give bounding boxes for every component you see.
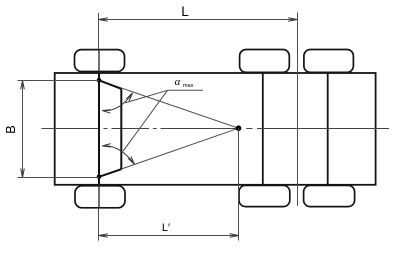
rear bottom wheel 1	[239, 185, 290, 206]
B bottom extension line	[18, 176, 100, 178]
front axle lower extension (thin)	[98, 208, 100, 241]
leader to bottom arc	[123, 90, 168, 151]
svg-text:max: max	[183, 83, 194, 89]
triangle line A (top kingpin to rear point)	[99, 80, 239, 128]
svg-text:L′: L′	[162, 222, 170, 234]
triangle line B (bottom kingpin to rear point)	[99, 128, 239, 177]
L dimension left arrow	[99, 18, 108, 22]
B dimension bottom arrow	[21, 169, 25, 178]
rear axle 1 line	[262, 73, 264, 185]
svg-text:L: L	[181, 4, 189, 19]
front top wheel	[75, 50, 125, 72]
svg-text:α: α	[175, 76, 181, 88]
L dimension line	[99, 19, 297, 21]
front axle lower wheel segment	[98, 185, 100, 208]
L' left arrow	[99, 234, 108, 238]
L right extension line	[296, 13, 298, 207]
B top extension line	[18, 80, 100, 82]
L' right arrow	[230, 234, 239, 238]
bottom angle arc	[102, 146, 134, 164]
rear top wheel 1	[240, 50, 290, 73]
front axle upper extension (thin)	[98, 13, 100, 49]
steering arm bottom (thick)	[99, 169, 121, 177]
kingpin node bottom	[97, 175, 102, 180]
front axle kingpin line (thick)	[98, 73, 100, 185]
bottom arc arrow toward axle	[102, 144, 111, 147]
front bottom wheel	[75, 186, 125, 208]
rear convergence point	[236, 125, 242, 131]
rear bottom wheel 2	[304, 185, 355, 206]
tie rod (thick vertical)	[120, 89, 122, 169]
vehicle body outline	[55, 73, 376, 185]
leader to top arc	[125, 90, 168, 103]
front axle upper wheel segment	[98, 49, 100, 73]
svg-text:B: B	[3, 125, 18, 134]
rear axle 2 line	[327, 73, 329, 185]
top arc arrow toward axle	[102, 110, 111, 113]
B dimension line	[22, 80, 24, 177]
L' right extension line (from rear point down)	[238, 128, 240, 240]
top arc arrow toward triangle line	[126, 93, 132, 101]
steering arm top (thick)	[99, 80, 121, 89]
top angle arc	[102, 93, 132, 111]
B dimension top arrow	[21, 81, 25, 90]
kingpin node top	[97, 78, 102, 83]
alpha label underline	[168, 89, 204, 91]
rear top wheel 2	[304, 50, 354, 73]
centerline dash-dot	[42, 128, 390, 130]
L' dimension line	[99, 235, 239, 237]
L dimension right arrow	[288, 18, 297, 22]
bottom arc arrow toward triangle line	[128, 157, 134, 165]
